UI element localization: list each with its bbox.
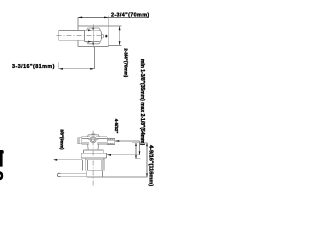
svg-text:3-3/16"(81mm): 3-3/16"(81mm) [12,64,55,70]
top cap [87,135,99,137]
edge glyph lower [0,171,3,180]
min/max dim [132,142,148,144]
straight linework (crisp) [55,16,150,178]
valve body plan straight edges [85,30,102,41]
cap tab top [87,28,101,30]
ext lines 3-3/16 [59,47,95,69]
ext+dim lines right vertical 2-3/4 [108,26,121,45]
svg-text:4-5/32": 4-5/32" [114,119,119,134]
valve body plan rounded right [99,30,102,41]
svg-text:min 1-3/8"(35mm) max 2-1/8"(54: min 1-3/8"(35mm) max 2-1/8"(54mm) [139,59,145,145]
neck below body [88,144,99,150]
bottom ext line to dim [87,176,148,178]
arrow vdim top [119,26,121,30]
curved / slanted linework (smooth) [57,28,113,186]
dome crosshair [88,139,98,141]
arrow vdim bottom [119,41,121,45]
cap tab bottom [87,42,101,44]
leader line lower [86,41,90,43]
arrow callout corner down [139,151,141,154]
lever handle bar [59,30,85,40]
svg-text:4-9/16"(116mm): 4-9/16"(116mm) [147,145,153,186]
arrow 4-9/16 down [146,173,148,177]
arrow flange callout [107,154,111,156]
flange callout lower [107,154,140,156]
dome inner [91,138,95,142]
left fitting [77,138,81,144]
right pipe threaded [107,139,115,145]
knob dark ellipse [105,35,107,38]
strip left end C [57,173,60,177]
body band right [96,137,107,145]
wall plate (escutcheon) plan outline [78,16,108,47]
arrow 3-3/16 right [90,68,94,70]
arrow minmax up [135,143,137,146]
body band left [82,137,91,145]
left dim line w arrow [55,159,83,161]
pipe thread hatch [108,139,113,145]
centerline arrow down [92,43,94,46]
leader arrowhead upper [88,29,92,31]
dim 4-9/16 vertical [146,143,148,177]
svg-text:3/8"(9mm): 3/8"(9mm) [60,129,65,150]
vertical centerline top view [92,24,94,48]
centerline arrow up [92,26,94,29]
arrow dim top right [104,17,108,19]
top cap stem [92,133,95,136]
arrow dim top left [78,17,82,19]
lower block [87,170,103,177]
shell step [81,160,83,171]
right bump [101,34,103,38]
arrow 3-3/16 left [59,68,63,70]
sleeve [85,158,104,170]
arrowheads (smooth, dark) [53,17,148,178]
supply strip left [60,174,87,177]
arrow minmax down [135,155,137,158]
arrow 4-9/16 up [146,143,148,147]
arrow pipe-end [115,140,119,142]
arrow left dim front [53,159,57,161]
leader arrowhead lower [88,41,92,43]
flange wide [81,153,106,158]
front centerline dash-dot [92,131,94,187]
handle centerline dash-dot [57,34,105,36]
dome outer [90,137,96,143]
leader line upper [86,29,90,31]
edge glyph upper [0,150,4,167]
dim line 3-3/16 [59,68,95,70]
svg-text:2-3/4"(70mm): 2-3/4"(70mm) [124,48,129,77]
svg-text:2-3/4"(70mm): 2-3/4"(70mm) [111,12,150,18]
pipe-end callout upper [115,141,140,155]
dimension line 2-3/4 top [78,16,149,18]
flange small [84,150,104,153]
